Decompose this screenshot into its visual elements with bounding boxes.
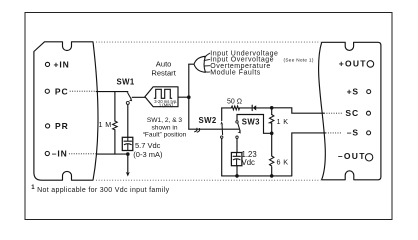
svg-text:SW2: SW2 [199, 116, 217, 125]
svg-text:Auto: Auto [156, 59, 172, 68]
svg-text:(See Note 1): (See Note 1) [284, 58, 314, 63]
wire SW1 to 5.7V shunt [127, 104, 129, 137]
svg-text:+OUT: +OUT [339, 59, 367, 69]
svg-text:Module Faults: Module Faults [210, 69, 260, 76]
svg-text:“Fault” position: “Fault” position [143, 132, 187, 139]
bottom return wire [222, 175, 292, 177]
svg-text:1 M: 1 M [99, 120, 112, 129]
svg-text:–OUT: –OUT [338, 151, 366, 161]
svg-text:–IN: –IN [52, 149, 68, 159]
wire node A to SW2 [189, 128, 239, 130]
wire PC pin dotted lead [70, 90, 97, 92]
node dot reference/bottom [235, 174, 239, 178]
svg-text:+S: +S [347, 86, 359, 96]
wire to SC pin [272, 108, 324, 113]
pin +IN [45, 62, 49, 66]
wire shunt to rail with arrow [127, 154, 129, 172]
resistor R1 1M [114, 92, 116, 155]
wire top to 50 ohm [222, 107, 272, 109]
or-gate U1 module faults [189, 63, 194, 65]
auto-restart block [145, 87, 178, 107]
wire SW2 to bottom rail [221, 138, 223, 176]
svg-text:5.7 Vdc: 5.7 Vdc [135, 141, 161, 150]
svg-text:SW3: SW3 [242, 118, 260, 127]
svg-text:PC: PC [55, 86, 69, 96]
output connector block J2 [319, 42, 381, 180]
wire SW1 to auto-restart [132, 96, 145, 98]
svg-text:6 K: 6 K [277, 158, 289, 167]
svg-text:1 K: 1 K [277, 117, 289, 126]
svg-text:50 Ω: 50 Ω [227, 99, 242, 106]
wire reference to bottom wire [236, 166, 238, 176]
resistor R3 6K [271, 133, 273, 176]
wire break mark [195, 128, 200, 132]
svg-text:–S: –S [347, 128, 359, 138]
node A junction dot [187, 95, 191, 99]
switch SW3 [236, 121, 238, 123]
node dot 1K/6K [270, 132, 274, 136]
resistor 50 ohm [231, 106, 239, 110]
svg-text:(0-3 mA): (0-3 mA) [133, 150, 163, 159]
node dot SC bus [270, 106, 274, 110]
node junction dot -IN/shunt [126, 152, 130, 156]
wire auto-restart output [178, 96, 189, 98]
bottom internal rail (dotted) [96, 179, 320, 181]
wire to -S pin [292, 133, 326, 176]
figure border frame [25, 13, 392, 220]
svg-text:Restart: Restart [151, 69, 176, 78]
pin PC [45, 89, 49, 93]
wire -IN to shunt node [97, 153, 128, 155]
svg-text:SW1, 2, & 3: SW1, 2, & 3 [147, 117, 183, 124]
svg-text:1 (MIN): 1 (MIN) [159, 102, 174, 107]
resistor R2 1K [271, 108, 273, 134]
svg-text:PR: PR [55, 121, 69, 131]
zener shunt 5.7 Vdc [122, 137, 133, 150]
svg-text:Not applicable for 300 Vdc inp: Not applicable for 300 Vdc input family [37, 187, 169, 194]
wire SW3 to reference [236, 138, 238, 152]
reference source 1.23 Vdc [231, 153, 242, 166]
diode D1 [251, 105, 253, 110]
pin -IN [45, 151, 49, 155]
svg-text:shown in: shown in [151, 124, 177, 131]
pin PR [46, 124, 50, 128]
svg-text:Vdc: Vdc [242, 158, 256, 167]
svg-text:SW1: SW1 [117, 78, 135, 87]
svg-text:+IN: +IN [54, 59, 70, 69]
wire vertical OR-gate / SW2 bus [188, 64, 190, 129]
switch SW3 wire loop [237, 115, 272, 134]
node dot 6K/bottom [270, 174, 274, 178]
input connector block J1 [34, 42, 98, 180]
top internal rail (dotted) [96, 41, 320, 43]
svg-text:SC: SC [345, 108, 359, 118]
wire -IN pin dotted lead [69, 153, 97, 155]
wire PC to SW1 [96, 91, 127, 93]
